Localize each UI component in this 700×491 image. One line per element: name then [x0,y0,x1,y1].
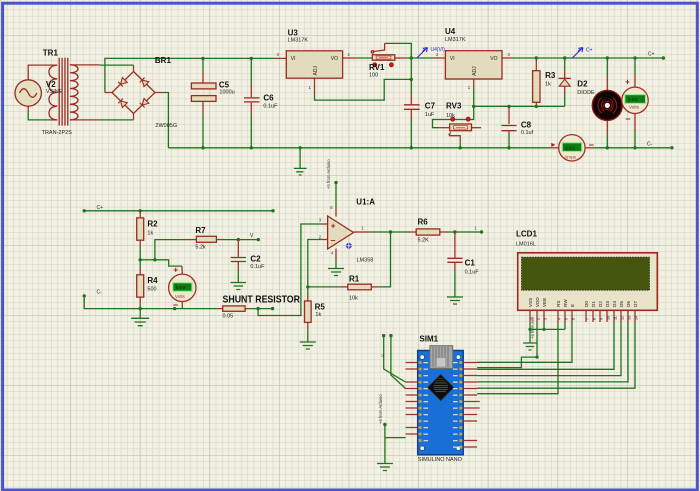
svg-text:ADJ: ADJ [313,66,319,76]
svg-text:1k: 1k [147,231,153,237]
svg-text:D2: D2 [598,301,603,307]
svg-text:RV1: RV1 [369,63,385,72]
svg-text:Volts: Volts [175,294,186,299]
svg-text:LM317K: LM317K [288,38,309,44]
svg-text:10k: 10k [349,296,358,302]
svg-text:C-: C- [647,142,653,148]
svg-text:0.05: 0.05 [223,314,234,320]
svg-text:U1:A: U1:A [356,198,375,207]
svg-text:SIM1: SIM1 [419,335,438,344]
svg-text:D1: D1 [591,301,596,307]
svg-text:11: 11 [614,316,618,320]
svg-text:R3: R3 [545,71,556,80]
svg-text:VI: VI [291,56,296,62]
svg-text:10: 10 [607,316,611,320]
svg-text:C7: C7 [425,102,436,111]
svg-text:2: 2 [537,318,541,320]
svg-text:R7: R7 [195,226,206,235]
svg-text:12: 12 [621,316,625,320]
svg-text:5: 5 [565,318,569,320]
svg-text:C2: C2 [250,255,261,264]
svg-text:1k: 1k [545,82,551,88]
svg-text:10k: 10k [446,113,455,119]
svg-text:VO: VO [331,56,338,62]
svg-text:C6: C6 [263,94,274,103]
svg-text:8.8.8: 8.8.8 [628,97,638,102]
svg-text:1000u: 1000u [219,90,234,96]
svg-text:TRAN-2P2S: TRAN-2P2S [42,130,73,136]
svg-text:−: − [625,114,630,124]
svg-text:100: 100 [369,73,378,79]
svg-text:D2: D2 [577,80,588,89]
svg-text:−: − [589,140,594,150]
svg-text:5.2k: 5.2k [195,245,206,251]
svg-text:ADJ: ADJ [472,66,478,76]
svg-text:500: 500 [147,287,156,293]
svg-text:Amps: Amps [564,154,576,159]
svg-text:SHUNT RESISTOR: SHUNT RESISTOR [223,295,301,306]
svg-text:R2: R2 [147,220,158,229]
svg-text:8: 8 [593,318,597,320]
svg-text:U4(VI): U4(VI) [431,47,446,53]
svg-text:D4: D4 [612,301,617,307]
svg-text:6: 6 [572,318,576,320]
svg-text:VSINE: VSINE [46,89,63,95]
svg-text:BR1: BR1 [155,56,172,65]
svg-text:13: 13 [628,316,632,320]
svg-text:1uF: 1uF [425,112,435,118]
svg-text:+: + [331,220,336,230]
svg-text:LM358: LM358 [357,258,374,264]
svg-text:V: V [380,354,385,357]
svg-text:0.1uF: 0.1uF [465,270,480,276]
svg-text:7: 7 [586,318,590,320]
svg-text:DIODE: DIODE [577,90,595,96]
svg-text:C+: C+ [97,205,104,211]
svg-text:R6: R6 [418,218,429,227]
svg-text:C-: C- [97,290,103,296]
svg-text:R1: R1 [349,275,360,284]
svg-text:2W005G: 2W005G [155,123,177,129]
svg-text:VDD: VDD [535,297,540,307]
svg-text:D6: D6 [626,301,631,307]
svg-text:LM317K: LM317K [445,37,466,43]
svg-text:+: + [625,77,630,87]
svg-text:C1: C1 [465,259,476,268]
svg-text:9: 9 [600,318,604,320]
svg-text:Volts: Volts [629,105,640,110]
svg-text:SIMULINO NANO: SIMULINO NANO [418,457,463,463]
svg-text:8.8.8: 8.8.8 [565,145,575,150]
svg-text:LCD1: LCD1 [516,230,537,239]
svg-text:V2: V2 [46,80,56,89]
svg-text:R4: R4 [147,276,158,285]
svg-text:RS: RS [556,301,561,307]
svg-text:U3: U3 [288,29,299,38]
svg-text:VI: VI [450,56,455,62]
svg-text:E: E [570,304,575,307]
svg-text:VSS: VSS [528,298,533,307]
svg-text:D5: D5 [619,301,624,307]
svg-text:D7: D7 [633,301,638,307]
svg-text:14: 14 [635,316,639,320]
svg-text:4: 4 [558,318,562,320]
svg-text:+: + [173,265,178,275]
svg-text:+5 from Ard: +5 from Ard [530,317,535,339]
svg-text:R5: R5 [315,303,326,312]
svg-text:D0: D0 [584,301,589,307]
svg-text:C+: C+ [648,52,655,58]
svg-text:VEE: VEE [542,298,547,307]
svg-text:+5 from Arduino: +5 from Arduino [378,394,383,424]
svg-text:U4: U4 [445,27,456,36]
svg-text:RV3: RV3 [446,102,462,111]
svg-text:0.1uF: 0.1uF [250,264,265,270]
svg-text:VO: VO [490,56,497,62]
svg-text:C8: C8 [521,121,532,130]
svg-text:LM016L: LM016L [516,242,536,248]
svg-text:C+: C+ [586,48,593,54]
svg-text:+5 from Arduino: +5 from Arduino [326,159,331,189]
svg-text:−: − [331,235,336,245]
svg-text:D3: D3 [605,301,610,307]
svg-text:1k: 1k [315,312,321,318]
svg-text:5.2K: 5.2K [418,238,430,244]
svg-text:0.1uF: 0.1uF [263,104,278,110]
svg-text:8.8.8: 8.8.8 [176,285,186,290]
svg-text:RW: RW [563,299,568,307]
svg-text:C5: C5 [219,81,230,90]
svg-text:TR1: TR1 [43,49,59,58]
svg-text:3: 3 [544,318,548,320]
svg-text:0.1uf: 0.1uf [521,130,534,136]
